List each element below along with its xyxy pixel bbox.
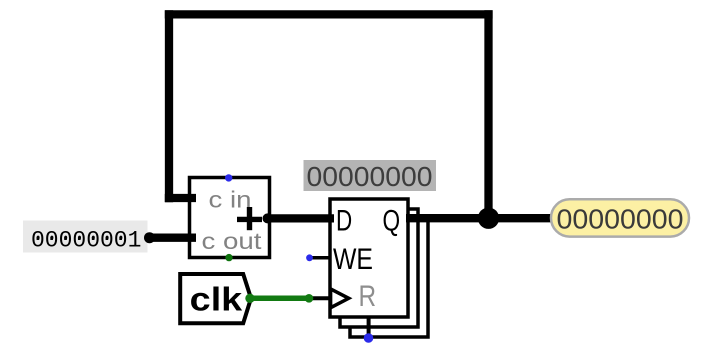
node: blue dot WE stub <box>306 254 313 261</box>
svg-text:clk: clk <box>190 280 243 317</box>
thin stub: clock pin into register <box>308 296 330 300</box>
dotted-zero dots for input label <box>37 236 123 240</box>
node: green dot at clk tip <box>245 294 254 303</box>
node: black endpoint dot at adder output <box>263 213 273 223</box>
wire: into adder c-in-side input <box>165 194 196 202</box>
node: junction dot on Q output <box>478 208 499 229</box>
node: green dot at register clock end <box>305 294 314 303</box>
wire: top horizontal <box>165 10 493 18</box>
node: green dot adder carry-out <box>225 254 232 261</box>
register stack shadow box B2 <box>340 209 418 327</box>
node: blue dot register stack bottom <box>364 333 374 343</box>
svg-text:00000001: 00000001 <box>31 227 141 253</box>
svg-text:c out: c out <box>202 228 263 254</box>
register clock triangle <box>331 289 349 308</box>
wire: adder output to register D <box>265 214 334 222</box>
wire: input label to adder lower input <box>149 234 196 242</box>
wire: left vertical of loop <box>165 10 173 202</box>
thin stub: register stack bottom vertical <box>367 316 371 339</box>
adder plus symbol <box>237 207 262 230</box>
wire: right vertical of loop <box>484 10 492 218</box>
wire: register Q to output oval <box>406 214 553 222</box>
wire: clk green wire <box>251 296 309 302</box>
register value label 00000000 background <box>304 160 437 191</box>
register stack shadow box B3 <box>350 219 428 337</box>
register U2 front box B1 <box>330 199 408 317</box>
clk input pin pentagon <box>180 274 251 323</box>
node: blue dot adder carry-in <box>225 174 232 181</box>
input value label 00000001 background <box>23 221 148 253</box>
svg-text:Q: Q <box>383 204 401 237</box>
node: black endpoint dot at input label wire <box>144 232 155 243</box>
svg-text:WE: WE <box>333 243 373 276</box>
wire: feedback loop top/left/right (bus) <box>149 10 553 237</box>
svg-text:00000000: 00000000 <box>307 161 433 192</box>
svg-text:R: R <box>359 280 377 313</box>
thin stub: WE input <box>311 256 330 260</box>
adder U1 box <box>190 178 270 258</box>
svg-text:D: D <box>336 204 352 237</box>
output pin oval <box>551 199 689 236</box>
svg-text:c in: c in <box>209 187 252 213</box>
svg-text:00000000: 00000000 <box>557 203 684 234</box>
